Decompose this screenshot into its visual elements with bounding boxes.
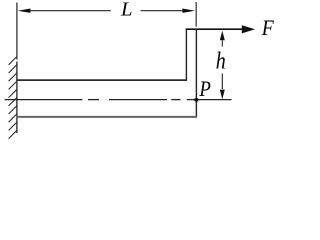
svg-text:P: P [199,76,211,101]
force F line [186,28,243,30]
wire: h dim shaft bottom [221,74,223,90]
dimension h: up arrow [220,31,225,41]
riser left edge [185,29,187,80]
dimension L: left arrow [18,9,31,13]
wire: right extension line above riser [195,2,197,27]
centerline segment 3 [109,99,167,101]
centerline segment 5 / h extension at P [187,99,232,101]
svg-text:L: L [120,0,133,21]
wire: h dim shaft top [221,41,223,47]
force F arrowhead [242,25,255,33]
beam bottom edge [16,116,197,118]
svg-text:h: h [216,49,226,75]
wire: L dim shaft left [29,10,110,12]
dimension L: right arrow [182,9,195,13]
beam top edge [16,79,187,81]
wire: L dim shaft right [141,10,184,12]
riser right edge [195,29,197,117]
wall line [16,62,18,134]
dimension h: down arrow [220,90,225,100]
node P junction dot [194,98,198,102]
centerline segment 1 [5,99,83,101]
wall hatching [9,57,17,139]
wire: left extension line above wall [16,3,18,60]
centerline segment 2 [88,99,99,101]
centerline segment 4 [171,99,180,101]
svg-text:F: F [261,15,274,40]
